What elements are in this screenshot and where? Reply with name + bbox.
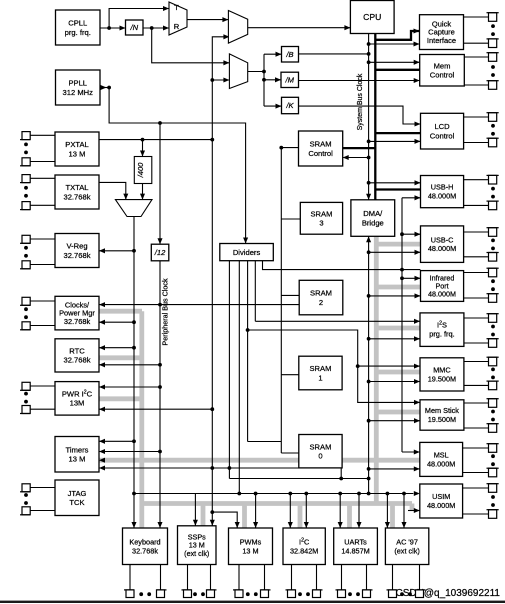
svg-text:RTC: RTC xyxy=(69,347,85,356)
svg-text:Control: Control xyxy=(308,149,333,158)
block USB-H xyxy=(421,176,464,208)
gray bus: Clocks/PowerMgr 32k out xyxy=(99,309,142,314)
junction thin at SRAMC row xyxy=(367,156,371,160)
wire div4 to I2S xyxy=(255,320,420,322)
wire /400 output to xtal mux xyxy=(142,183,144,199)
arrowhead PWMs input right xyxy=(253,522,258,528)
junction div3 at 330 branch xyxy=(246,328,250,332)
arrowhead MMC lower xyxy=(414,379,420,384)
wire 13M to mux2 bottom input xyxy=(212,79,229,81)
junction DMAv at MemStick lower xyxy=(367,419,371,423)
junction 32k at bottom row xyxy=(132,492,136,496)
bus thick QCI feed xyxy=(375,31,419,40)
arrowhead USB-H thin xyxy=(415,180,421,185)
junction PPLL corner xyxy=(107,86,111,90)
svg-text:Keyboard: Keyboard xyxy=(129,537,160,546)
wire divider out 5 to Infrared line xyxy=(263,261,421,270)
block MMC xyxy=(420,358,464,391)
svg-text:32.768k: 32.768k xyxy=(63,356,90,365)
gray bus: drop to AC97 xyxy=(390,504,395,529)
svg-text:3: 3 xyxy=(319,219,323,228)
pins LCD Control xyxy=(464,113,499,147)
junction 48M vertical on IR line xyxy=(400,268,404,272)
junction 13M at H1 xyxy=(210,466,214,470)
svg-text:Control: Control xyxy=(430,71,455,80)
block MSL xyxy=(420,442,463,476)
pins I2S xyxy=(464,314,499,348)
arrowhead USB-C lower xyxy=(415,250,421,255)
arrowhead AC97 input right xyxy=(401,522,406,528)
svg-text:Timers: Timers xyxy=(66,445,89,454)
pins Keyboard xyxy=(124,565,167,598)
wire USB-C upper feed xyxy=(402,233,421,235)
gray bus: bottom distribution xyxy=(142,501,412,506)
svg-text:/400: /400 xyxy=(136,162,145,179)
wire MMC upper feed xyxy=(358,365,420,367)
block RTC xyxy=(55,339,99,372)
svg-text:UARTs: UARTs xyxy=(344,537,367,546)
svg-text:/12: /12 xyxy=(154,248,166,257)
wire to /K xyxy=(264,105,282,107)
wire line B lower distribution xyxy=(229,478,368,480)
pins Quick Capture xyxy=(464,13,499,48)
svg-text:CPU: CPU xyxy=(363,12,381,22)
junction 32k at V-Reg xyxy=(132,249,136,253)
svg-text:14.857M: 14.857M xyxy=(341,546,369,555)
svg-text:I2S: I2S xyxy=(437,321,447,330)
arrowhead mux1 bottom input xyxy=(223,34,229,39)
arrowhead RTC input 2 xyxy=(99,362,105,367)
arrowhead QCI thick xyxy=(414,28,420,33)
wire drop AC97 right xyxy=(403,494,405,529)
wire LCD thin feed xyxy=(369,140,421,142)
svg-text:USB-C: USB-C xyxy=(431,235,454,244)
mux xtal select (downward) xyxy=(115,200,152,217)
wire Timers middle xyxy=(99,451,160,453)
arrowhead LCD thin xyxy=(415,139,421,144)
arrowhead Mem thin xyxy=(414,60,420,65)
wire to Clocks/PowerMgr lower xyxy=(99,321,134,323)
junction DMAv at MSL lower row xyxy=(367,467,371,471)
block Mem Stick xyxy=(420,400,464,430)
svg-text:(ext clk): (ext clk) xyxy=(184,549,209,558)
wire TXTAL output to xtal mux xyxy=(99,182,126,199)
block Dividers xyxy=(220,244,273,261)
bus thick system bus clock xyxy=(374,34,376,237)
junction PXTAL at 13M vertical xyxy=(210,138,214,142)
junction PBC at PWR row xyxy=(158,385,162,389)
arrowhead AC97 input left xyxy=(385,522,390,528)
arrowhead PWR input 1 xyxy=(99,384,105,389)
svg-text:System Bus Clock: System Bus Clock xyxy=(357,73,364,130)
block PXTAL xyxy=(55,132,99,166)
arrowhead Keyboard input left xyxy=(131,522,136,528)
gray bus: drop to I2C xyxy=(298,504,303,529)
bottom page rule xyxy=(0,601,505,603)
junction BMK feed xyxy=(262,70,266,74)
wire SRAM1 stub xyxy=(281,374,299,376)
junction H3 AC97 right xyxy=(402,492,406,496)
svg-text:CPLL: CPLL xyxy=(68,19,87,28)
arrowhead UARTs input right xyxy=(356,522,361,528)
wire to Timers upper xyxy=(99,440,134,442)
arrowhead RTC input 1 xyxy=(99,345,105,350)
junction H3 UARTs right xyxy=(357,492,361,496)
svg-text:LCD: LCD xyxy=(434,122,450,131)
pins PWR I2C xyxy=(20,382,55,413)
svg-text:MSL: MSL xyxy=(434,451,449,460)
wire drop UARTs right xyxy=(358,494,360,529)
arrowhead SSPs input right xyxy=(210,520,215,526)
arrowhead I2C input left xyxy=(288,522,293,528)
svg-text:USB-H: USB-H xyxy=(431,183,454,192)
block Infrared Port xyxy=(421,271,464,302)
wire PPLL output xyxy=(100,87,109,89)
svg-text:0: 0 xyxy=(318,452,322,461)
svg-text:13 M: 13 M xyxy=(242,546,258,555)
wire DMA bottom vertical xyxy=(368,236,370,493)
svg-text:1: 1 xyxy=(318,373,322,382)
arrowhead into DMA bottom xyxy=(366,236,371,242)
junction PBC at Timers row xyxy=(158,450,162,454)
svg-text:13M: 13M xyxy=(70,399,85,408)
arrowhead Infrared lower xyxy=(415,293,421,298)
pins Clocks/Power Mgr xyxy=(20,297,55,330)
junction PBC at RTC row xyxy=(158,363,162,367)
gray bus: vertical from Clocks down to Keyboard xyxy=(139,311,144,528)
svg-text:/M: /M xyxy=(285,76,295,85)
pins USIM xyxy=(463,484,499,519)
arrowhead MemStick lower xyxy=(414,418,420,423)
junction PPLL line to /12 xyxy=(158,121,162,125)
junction line B at DMA vertical xyxy=(367,477,371,481)
arrowhead MSL upper xyxy=(414,449,420,454)
block USIM xyxy=(420,484,463,518)
arrowhead into Dividers xyxy=(243,238,248,244)
bus thick SRAM Control link xyxy=(343,147,376,149)
arrowhead MSL lower xyxy=(414,466,420,471)
svg-text:PWMs: PWMs xyxy=(240,537,262,546)
junction 13M at PWM elbow xyxy=(210,510,214,514)
pins AC97 xyxy=(387,565,426,598)
wire peripheral bus clock vertical xyxy=(159,261,161,528)
wire divider out 1 xyxy=(228,261,230,479)
svg-text:32.768k: 32.768k xyxy=(63,192,90,201)
svg-text:Mem Stick: Mem Stick xyxy=(425,406,459,415)
block SRAM Control xyxy=(299,131,343,166)
wire USB-H lower feed from 48M vertical xyxy=(402,197,421,199)
wire 13M vertical xyxy=(211,140,213,526)
svg-text:PWR I2C: PWR I2C xyxy=(62,389,93,398)
arrowhead UARTs input left xyxy=(338,522,343,528)
wire /K output to LCD xyxy=(299,106,421,124)
junction DMAv at MMC lower xyxy=(367,380,371,384)
block I2S xyxy=(420,313,464,347)
arrowhead into /12 xyxy=(157,238,162,244)
svg-text:JTAG: JTAG xyxy=(68,489,87,498)
wire I2S lower feed xyxy=(369,338,420,340)
wire CPLL to T input of T/R mux xyxy=(109,9,169,29)
arrowhead Mem Control input 3 xyxy=(414,78,420,83)
wire QCI thin feed xyxy=(369,43,420,45)
arrowhead USIM upper xyxy=(414,491,420,496)
block TXTAL xyxy=(55,175,99,209)
svg-text:48.000M: 48.000M xyxy=(428,289,456,298)
bus thick Mem feed xyxy=(375,69,419,71)
svg-text:32.768k: 32.768k xyxy=(64,317,91,326)
wire 32k vertical from xtal mux xyxy=(133,217,135,529)
divider /M xyxy=(281,72,299,87)
junction 32k at Clocks row xyxy=(132,320,136,324)
arrowhead PPLL out xyxy=(101,85,107,90)
arrowhead into SRAM Control xyxy=(343,155,349,160)
wire SRAM Control thin feed xyxy=(343,157,369,159)
svg-text:Control: Control xyxy=(430,131,455,140)
pins JTAG xyxy=(20,484,55,515)
wire /N output to R input xyxy=(143,27,169,29)
junction div2 at H3 xyxy=(237,492,241,496)
wire to /M xyxy=(264,79,281,81)
arrowhead into /K xyxy=(276,104,282,109)
arrowhead PWR input 2 xyxy=(99,407,105,412)
arrowhead into /B xyxy=(276,52,282,57)
junction 13M line at mux2 row xyxy=(210,78,214,82)
junction DMAv at I2S lower xyxy=(367,337,371,341)
junction H3 AC97 left xyxy=(386,492,390,496)
junction DMAv at USB-C lower xyxy=(367,250,371,254)
mux 1 (CPU clock select) xyxy=(228,11,247,44)
arrowhead into /M xyxy=(275,77,281,82)
wire mux2 output xyxy=(248,71,264,73)
wire Infrared lower feed xyxy=(369,295,421,297)
svg-text:13 M: 13 M xyxy=(69,149,86,158)
arrowhead USIM lower xyxy=(414,508,420,513)
wire drop I2C left xyxy=(289,494,291,529)
arrowhead into /400 xyxy=(140,151,145,157)
divider /400 (rotated) xyxy=(134,157,152,184)
gray bus: to Mem Stick xyxy=(376,410,420,415)
svg-text:SRAM: SRAM xyxy=(309,442,331,451)
wire SRAM0 stub xyxy=(281,452,299,454)
arrowhead R input xyxy=(163,25,169,30)
wire Clocks upper long line xyxy=(99,304,299,306)
mux 2 (bus clock select) xyxy=(229,54,247,89)
svg-text:48.000M: 48.000M xyxy=(428,192,456,201)
arrowhead SSPs input left xyxy=(193,520,198,526)
pins MSL xyxy=(463,444,499,477)
wire div3 branch to Mem Stick xyxy=(248,330,420,402)
bus thick LCD feed xyxy=(375,132,420,134)
svg-text:48.000M: 48.000M xyxy=(428,244,456,253)
junction 48M at Infrared row xyxy=(400,276,404,280)
pins Mem Stick xyxy=(464,399,499,433)
svg-text:48.000M: 48.000M xyxy=(427,501,455,510)
junction DMAv at H3 xyxy=(367,492,371,496)
pins USB-H xyxy=(464,175,499,209)
arrowhead xtal-mux input left xyxy=(123,194,128,200)
gray bus: branch to RTC xyxy=(99,355,142,360)
block Clocks/Power Mgr xyxy=(55,296,99,330)
pins TXTAL xyxy=(20,175,55,210)
svg-text:SRAM: SRAM xyxy=(310,140,332,149)
divider /B xyxy=(282,47,299,63)
svg-text:TCK: TCK xyxy=(69,498,84,507)
arrowhead into CPU xyxy=(344,25,350,30)
arrowhead into V-Reg xyxy=(99,248,105,253)
arrowhead I2C input right xyxy=(304,522,309,528)
junction div3 branch at MMC row xyxy=(356,364,360,368)
arrowhead into /N xyxy=(120,25,126,30)
svg-text:Interface: Interface xyxy=(427,36,456,45)
gray bus: drop to UARTs xyxy=(347,504,352,529)
arrowhead mux2 bottom input xyxy=(223,77,229,82)
junction CPLL output xyxy=(107,26,111,30)
block DMA/Bridge xyxy=(351,200,395,237)
wire to PWR I2C lower xyxy=(99,408,212,410)
wire PPLL to Dividers xyxy=(109,88,246,244)
pins SSPs xyxy=(182,565,217,598)
block AC97 xyxy=(385,528,428,565)
gray bus: to USB-C xyxy=(376,242,420,247)
svg-text:/B: /B xyxy=(285,50,293,59)
svg-text:V-Reg: V-Reg xyxy=(66,242,87,251)
junction thin at Mem row xyxy=(367,60,371,64)
wire drop PWMs right xyxy=(255,494,257,529)
junction H3 I2C right xyxy=(304,492,308,496)
junction thin at USBH row xyxy=(367,181,371,185)
svg-text:PXTAL: PXTAL xyxy=(65,140,89,149)
svg-text:AC '97: AC '97 xyxy=(396,537,418,546)
svg-text:USIM: USIM xyxy=(432,492,450,501)
junction H1 joins line B xyxy=(339,477,343,481)
junction H3 UARTs left xyxy=(338,492,342,496)
wire 48M vertical xyxy=(401,198,403,452)
junction at /M row xyxy=(262,78,266,82)
svg-text:Dividers: Dividers xyxy=(233,248,261,257)
arrowhead Clocks input 1 xyxy=(99,302,105,307)
arrowhead Timers gray input xyxy=(99,458,105,463)
block PWMs xyxy=(229,528,273,565)
block I2C bottom xyxy=(283,528,325,565)
block SRAM 1 xyxy=(299,356,342,390)
block UARTs xyxy=(334,528,378,565)
svg-text:R: R xyxy=(174,22,180,31)
junction 32k at RTC row xyxy=(132,346,136,350)
wire drop AC97 left xyxy=(386,494,388,529)
junction thin at QCI row xyxy=(367,42,371,46)
arrowhead MMC upper xyxy=(414,364,420,369)
junction DMAv at Infrared lower xyxy=(367,294,371,298)
wire H3 bottom distribution xyxy=(134,493,413,495)
junction H3 I2C left xyxy=(288,492,292,496)
block PPLL xyxy=(56,70,101,105)
pins UARTs xyxy=(336,565,373,598)
svg-text:32.768k: 32.768k xyxy=(132,546,158,555)
wire PXTAL output 13M xyxy=(99,139,212,141)
pins PXTAL xyxy=(20,132,55,166)
wire drop UARTs left xyxy=(339,494,341,529)
wire mux1 output to CPU xyxy=(248,27,351,29)
arrowhead Clocks input 2 xyxy=(99,320,105,325)
wire to PWR I2C upper xyxy=(99,386,160,388)
junction 48M at USB-C row xyxy=(400,232,404,236)
bus thick USB-H feed xyxy=(375,188,420,190)
junction thin at LCD row xyxy=(367,140,371,144)
svg-text:32.842M: 32.842M xyxy=(290,546,318,555)
svg-text:19.500M: 19.500M xyxy=(428,415,456,424)
wire 13M elbow to PWMs left xyxy=(212,512,237,528)
wire divider out 2 xyxy=(238,261,240,494)
wire CPLL output xyxy=(100,27,126,29)
wire to V-Reg xyxy=(99,250,134,252)
wire SRAM3 stub xyxy=(281,218,300,220)
svg-text:PPLL: PPLL xyxy=(68,79,87,88)
svg-text:MMC: MMC xyxy=(433,366,450,375)
wire USB-H thin feed xyxy=(369,182,421,184)
arrowhead Timers input 1 xyxy=(99,439,105,444)
arrowhead xtal-mux input right xyxy=(140,194,145,200)
wire MemStick lower feed xyxy=(369,420,420,422)
arrowhead USB-H lower xyxy=(415,195,421,200)
svg-text:/K: /K xyxy=(285,101,294,110)
gray bus: to Infrared Port xyxy=(376,285,420,290)
wire 48M to MSL upper xyxy=(402,451,420,453)
svg-text:SRAM: SRAM xyxy=(310,289,332,298)
svg-text:312 MHz: 312 MHz xyxy=(63,88,94,97)
wire to /12 input xyxy=(159,123,161,244)
block LCD Control xyxy=(421,113,464,149)
svg-text:19.500M: 19.500M xyxy=(428,374,456,383)
arrowhead USB-C upper xyxy=(415,232,421,237)
mux T/R (turbo/run) xyxy=(169,2,187,35)
arrowhead Keyboard input right xyxy=(157,522,162,528)
wire USIM lower feed xyxy=(408,510,420,512)
pins Mem Control xyxy=(464,53,498,90)
arrowhead into DMA top xyxy=(366,194,371,200)
junction 13M at PWR row xyxy=(210,407,214,411)
svg-text:2: 2 xyxy=(319,298,323,307)
wire /400 input xyxy=(142,140,144,157)
junction div1 at H1 xyxy=(228,466,232,470)
junction /B at CPU thin vertical xyxy=(367,52,371,56)
pins PWMs xyxy=(233,565,271,598)
divider /N xyxy=(126,20,144,35)
arrowhead Mem Stick input 1 xyxy=(414,400,420,405)
divider /K xyxy=(282,97,299,113)
wire MSL lower feed xyxy=(369,468,420,470)
block Quick Capture Interface xyxy=(420,15,464,50)
arrowhead I2S input 1 xyxy=(414,319,420,324)
junction 32k at Timers row xyxy=(132,439,136,443)
junction H3 PWMs right xyxy=(254,492,258,496)
wire USB-C lower feed xyxy=(369,251,421,253)
pins V-Reg xyxy=(20,235,55,268)
wire SRAM bus vertical xyxy=(280,148,282,453)
gray bus: Timers row to MSL xyxy=(99,458,420,463)
arrowhead PWMs input left xyxy=(235,522,240,528)
wire /M output to Mem Control xyxy=(299,80,420,82)
block CPU xyxy=(350,1,394,34)
svg-text:Bridge: Bridge xyxy=(362,218,384,227)
arrowhead LCD input 1 xyxy=(415,121,421,126)
arrowhead Timers input 3 xyxy=(99,465,105,470)
gray bus: main vertical below DMA/Bridge xyxy=(374,236,379,503)
wire CPU thin vertical xyxy=(368,34,370,200)
junction /N output xyxy=(150,26,154,30)
wire drop I2C right xyxy=(305,494,307,529)
wire to RTC lower xyxy=(99,364,160,366)
arrowhead Infrared mid xyxy=(415,276,421,281)
